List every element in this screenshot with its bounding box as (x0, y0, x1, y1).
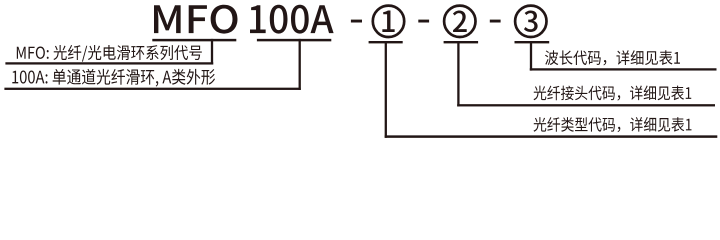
connector drop from circle 1 (385, 41, 387, 138)
label text row2 (12, 69, 215, 87)
label text row1 (17, 45, 202, 62)
row4 label underline (457, 104, 715, 106)
connector drop from 100A (299, 39, 301, 90)
row5 label underline (385, 135, 718, 138)
underline under 100A (257, 39, 331, 42)
title text "MFO" (154, 5, 237, 34)
row2 label underline (4, 88, 300, 90)
title text "100A" (250, 5, 334, 34)
row1 label underline (5, 62, 213, 64)
dash 1 (351, 20, 362, 23)
underline under MFO (152, 39, 236, 42)
circled number 1 (373, 6, 404, 37)
row3 label underline (530, 68, 717, 70)
connector drop from circle 3 (530, 41, 532, 71)
dash 2 (418, 20, 429, 23)
connector drop from circle 2 (457, 41, 459, 107)
label text row4 (534, 86, 692, 101)
label text row5 (533, 117, 691, 132)
circled number 3 (515, 6, 546, 37)
underline under circle 2 (444, 41, 479, 43)
underline under circle 1 (369, 41, 403, 43)
dash 3 (490, 20, 501, 23)
connector drop from MFO (211, 39, 213, 65)
underline under circle 3 (515, 41, 550, 43)
label text row3 (545, 50, 680, 65)
circled number 2 (444, 6, 475, 37)
